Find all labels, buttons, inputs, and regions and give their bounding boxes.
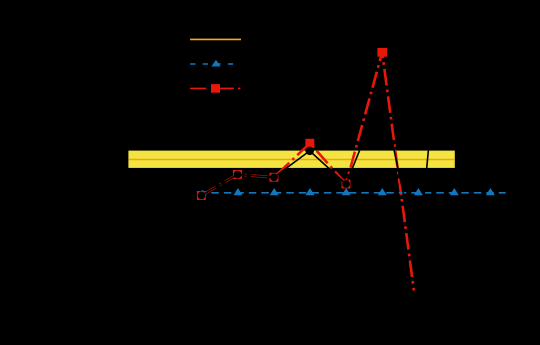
black circle marker P5 bbox=[342, 180, 350, 188]
blue triangle T4 bbox=[342, 188, 351, 195]
blue triangle T3 bbox=[306, 188, 315, 195]
black observed series line bbox=[201, 0, 454, 260]
legend blue triangle marker bbox=[211, 60, 220, 67]
black circle marker P2 bbox=[234, 171, 242, 179]
legend orange line bbox=[190, 38, 241, 40]
orange mean line bbox=[128, 159, 454, 161]
red dash-dot series line (descent tail) bbox=[382, 52, 414, 290]
legend blue dashed line bbox=[190, 63, 241, 65]
red dash-dot series line (ascent to peak) bbox=[346, 52, 382, 184]
red square marker P5 bbox=[342, 180, 351, 189]
legend red square marker bbox=[211, 84, 220, 93]
blue triangle T1 bbox=[234, 188, 243, 195]
red dash-dot series line (left part) bbox=[201, 143, 346, 195]
blue triangle T6 bbox=[414, 188, 423, 195]
red square marker P3 bbox=[270, 173, 279, 182]
black circle marker P1 bbox=[198, 192, 206, 200]
red square marker P1 bbox=[197, 191, 206, 200]
black circle marker P4 bbox=[305, 147, 314, 156]
blue dashed baseline bbox=[211, 192, 505, 194]
blue triangle T8 bbox=[486, 188, 495, 195]
yellow tolerance band bbox=[128, 151, 454, 168]
blue triangle T5 bbox=[378, 188, 387, 195]
blue triangle T7 bbox=[450, 188, 459, 195]
black circle marker P3 bbox=[270, 173, 278, 181]
red square marker P2 bbox=[233, 170, 242, 179]
red square marker P4 bbox=[305, 139, 314, 148]
blue triangle T2 bbox=[270, 188, 279, 195]
red square marker P6 peak bbox=[377, 48, 387, 57]
blue triangle T0 (hidden behind marker) bbox=[198, 190, 207, 196]
legend red dash-dot line bbox=[190, 87, 206, 89]
